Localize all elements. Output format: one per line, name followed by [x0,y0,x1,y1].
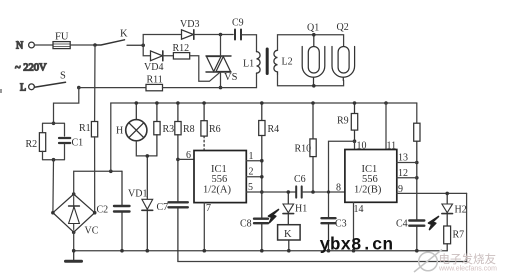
relay K [278,225,301,251]
svg-text:VC: VC [85,226,99,237]
node gnd-C3 [327,249,331,253]
fuse FU [53,32,70,49]
svg-text:L: L [20,83,26,94]
lamp Q1 [302,23,325,86]
LED H2 [442,193,467,226]
wire R2C1 frame top [43,123,65,136]
wire L line to R11 [79,87,146,89]
svg-text:R8: R8 [183,124,195,135]
node pin13 [415,161,419,165]
wire pin10 into IC [354,141,356,149]
ground bus [74,250,448,252]
VCC bus [111,102,417,104]
inductor L1 [243,52,260,74]
node VS top junction [219,33,223,37]
node gnd-bridge [72,249,76,253]
wire down to bridge left corner [52,160,55,213]
svg-text:R1: R1 [79,123,91,134]
svg-text:556: 556 [212,174,228,185]
svg-text:C3: C3 [335,219,347,230]
svg-text:1/2(B): 1/2(B) [354,185,382,196]
node R2C1 top [52,122,56,126]
wire C9 to L1 top [242,35,257,52]
capacitor C8 [240,219,268,251]
lamp H [116,103,147,141]
node bus-H [135,101,139,105]
node Q1 bottom [312,84,316,88]
rectifier bridge VC [51,192,99,236]
node VD1 top [146,154,150,158]
svg-text:C9: C9 [232,18,244,29]
svg-text:FU: FU [55,32,69,43]
svg-text:电子发烧友: 电子发烧友 [439,252,497,266]
svg-text:C6: C6 [294,174,306,185]
svg-text:S: S [60,71,66,82]
svg-text:R6: R6 [209,124,221,135]
wire FU to node [70,44,95,46]
resistor R5 (unlabeled) [414,123,420,220]
svg-text:R7: R7 [453,230,465,241]
svg-text:K: K [120,29,128,40]
wire R1 to bridge right corner [94,137,96,213]
svg-text:C7: C7 [157,202,169,213]
resistor R7 [444,226,464,251]
svg-text:1/2(A): 1/2(A) [203,185,231,196]
svg-text:6: 6 [186,150,191,161]
wire pin 1 [246,160,261,162]
node bus-R8 [176,101,180,105]
wire S branch down to R2C1 [54,88,79,124]
node bus-R9 [353,101,357,105]
svg-text:ybx8.cn: ybx8.cn [320,236,394,256]
resistor R12 [173,43,190,59]
node gnd-C4 [415,249,419,253]
svg-text:C4: C4 [396,219,408,230]
diode VD3 [180,19,199,39]
switch K [95,29,143,46]
wire pin 7 to ground [203,203,205,251]
svg-text:R12: R12 [173,43,190,54]
svg-text:R10: R10 [295,144,312,155]
node H2 branch [445,192,449,196]
node pin5-C8 [260,190,264,194]
LED H1 arrows [269,210,279,223]
capacitor C4 [396,219,424,251]
wire bridge top to DC+ node [74,171,122,194]
node N terminal [16,41,34,52]
svg-text:C2: C2 [97,205,109,216]
svg-text:Q1: Q1 [307,23,319,34]
wire bridge bottom to ground bus [73,232,75,251]
edge mark [0,89,2,93]
capacitor C7 [157,202,188,262]
resistor R1 [79,122,98,137]
node H1 branch [287,190,291,194]
node C3-pin8 crossing [327,190,330,193]
node gnd-C8 [260,249,264,253]
node VS bottom junction [219,86,223,90]
node pin1 [260,159,264,163]
node pin10 [353,139,357,143]
svg-text:VS: VS [224,72,238,83]
node R10 bottom [311,190,315,194]
svg-text:N: N [16,41,23,52]
lamp Q2 [332,22,355,81]
svg-text:H: H [116,126,123,137]
node L terminal [15,63,47,94]
resistor R3 [154,103,174,156]
node gnd-pin14 [352,249,356,253]
svg-text:VD1: VD1 [128,189,147,200]
node bus-R10 [311,101,315,105]
node pin2 [260,175,264,179]
svg-text:L2: L2 [282,57,293,68]
svg-text:www.elecfans.com: www.elecfans.com [438,266,497,273]
op-amp U2: IC1 556 1/2(B) [336,141,408,216]
svg-text:K: K [284,229,292,240]
svg-text:R9: R9 [337,116,349,127]
node gnd-C2 [120,249,124,253]
svg-text:C1: C1 [72,138,84,149]
LED H1 [283,192,307,225]
wire pin 2 [246,176,261,178]
svg-text:H1: H1 [295,204,307,215]
wire N to FU [35,44,54,46]
resistor R11 [146,75,163,91]
node K contact [141,44,145,48]
wire VS vertical [220,35,222,88]
svg-text:7: 7 [206,203,211,214]
svg-text:VD4: VD4 [144,62,163,73]
svg-text:R2: R2 [26,139,38,150]
node bus-R6 [202,101,206,105]
node pin12 [415,176,419,180]
svg-text:L1: L1 [243,59,254,70]
switch S [34,71,66,88]
resistor R6 [201,103,221,150]
capacitor C2 [97,171,130,250]
svg-text:H2: H2 [455,205,467,216]
node gnd-K [287,249,291,253]
resistor R9 [337,103,358,141]
capacitor C3 [322,218,347,251]
node pin6 junction [176,158,180,162]
node bus-pin11 [384,101,388,105]
resistor R8 [175,103,195,202]
op-amp U1: IC1 556 1/2(A) [186,150,254,214]
svg-text:VD3: VD3 [180,19,199,30]
resistor R4 [259,103,279,218]
svg-text:556: 556 [362,174,378,185]
wire pin 9 line [397,192,467,194]
node gnd-pin7 [203,249,207,253]
node junction N-line [93,43,97,47]
svg-text:R3: R3 [163,124,175,135]
wire K down to VD4 branch [143,45,150,56]
svg-text:2: 2 [249,167,254,178]
node S contact [77,86,81,90]
wire timing return line [178,193,467,261]
diode VD4 [144,51,163,73]
wire pin 6 [178,158,194,160]
transformer core [266,49,269,74]
svg-text:R4: R4 [268,124,280,135]
triac VS [206,56,238,83]
LED H2 arrows [429,217,439,230]
svg-text:~ 220V: ~ 220V [15,63,47,74]
svg-text:11: 11 [387,141,397,152]
ground [66,251,82,262]
svg-text:8: 8 [336,183,341,194]
wire R11 to VS bottom and L1 bottom [163,73,257,88]
wire L2 bottom to lamps [278,74,344,85]
svg-text:14: 14 [354,204,364,215]
wire H down [136,141,157,156]
wire VD3 to C9 [194,34,233,36]
resistor R10 [295,103,317,192]
svg-text:5: 5 [248,182,253,193]
wire N junction down to R1 [94,45,96,122]
wire pin 5 line [246,191,295,193]
wire VD4 to R12 [163,55,174,57]
wire pin 13 [397,162,417,164]
watermark logo circle [414,250,442,273]
wire C6 to pin 8 [302,191,345,193]
wire pin 14 to ground [353,202,355,250]
wire L2 top to lamps [278,35,344,51]
node bus-R3 [155,101,159,105]
wire pin 12 [397,177,417,179]
svg-text:Q2: Q2 [337,22,349,33]
svg-text:C8: C8 [240,219,252,230]
node DC+ [109,170,113,174]
capacitor C1 [59,138,83,149]
node gnd-VD1 [146,249,150,253]
wire pin 11 [385,103,387,150]
capacitor C6 [294,174,306,198]
svg-text:13: 13 [398,153,408,164]
wire R2C1 frame bottom [43,144,65,160]
VCC bus right bend [416,103,418,123]
node Q1 top [312,33,316,37]
svg-text:R11: R11 [147,75,163,86]
node bus-R4 [260,101,264,105]
svg-text:10: 10 [357,141,367,152]
wire R12 to VS gate [190,56,221,82]
wire K up to VD3 branch [143,35,181,46]
resistor R2 [26,133,46,152]
diode VD1 [128,156,153,251]
node R2C1 bottom [52,158,56,162]
capacitor C9 [232,18,244,40]
inductor L2 [274,50,293,74]
wire pin10 to C3 [329,141,355,217]
wire DC+ up to VCC bus [110,103,112,171]
